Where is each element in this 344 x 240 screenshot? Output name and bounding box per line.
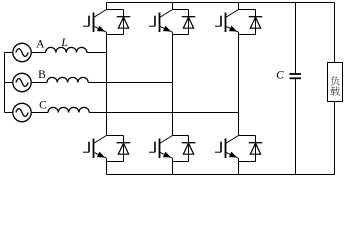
svg-text:A: A bbox=[36, 38, 45, 50]
svg-text:L: L bbox=[60, 37, 67, 49]
svg-text:C: C bbox=[39, 100, 47, 112]
svg-text:B: B bbox=[38, 69, 46, 81]
svg-text:C: C bbox=[276, 70, 284, 82]
